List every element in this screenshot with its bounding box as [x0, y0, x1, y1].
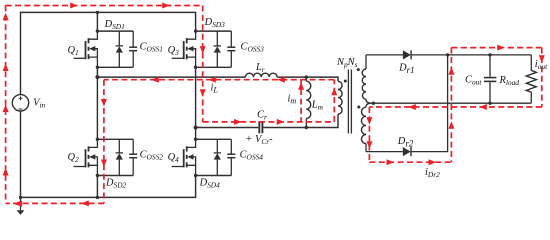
- node Q3 group top junction: [194, 29, 197, 32]
- transformer secondary upper polarity dot: [357, 68, 360, 71]
- wire Q4 group bottom: [196, 175, 232, 177]
- wire Q3 group bottom: [196, 66, 232, 68]
- wire red path along Cr line: [203, 121, 335, 123]
- svg-text:Vin: Vin: [33, 97, 45, 109]
- wire red path down right leg: [202, 6, 204, 122]
- svg-text:COSS2: COSS2: [140, 150, 164, 162]
- transistor Q4: [172, 139, 196, 175]
- wire bottom rail: [21, 176, 196, 198]
- arrows red right leg down: [200, 46, 206, 54]
- ground: [17, 197, 25, 215]
- svg-text:DSD3: DSD3: [204, 17, 226, 29]
- wire Cr line right to primary bottom: [263, 114, 338, 127]
- arrows red Dr2 loop left down: [366, 117, 372, 125]
- wire red path down left leg: [103, 80, 105, 204]
- wire red output loop top: [451, 47, 541, 49]
- wire top rail: [21, 12, 196, 94]
- transformer primary polarity dot: [344, 80, 347, 83]
- wire left leg middle: [96, 67, 98, 139]
- svg-text:Q4: Q4: [168, 152, 180, 164]
- wire Q3 group top: [196, 30, 232, 32]
- svg-text:COSS1: COSS1: [140, 42, 163, 54]
- node Cout top junction: [488, 53, 491, 56]
- svg-text:Lm: Lm: [311, 100, 324, 112]
- wire left leg bottom: [96, 176, 98, 198]
- node center tap junction: [372, 102, 375, 105]
- svg-text:COSS3: COSS3: [241, 42, 265, 54]
- wire secondary top to Dr1: [366, 54, 403, 56]
- node rectifier output junction: [446, 53, 449, 56]
- wire Q2 group bottom: [97, 175, 133, 177]
- node Lm bottom junction: [305, 126, 308, 129]
- capacitor COSS2: [129, 139, 137, 175]
- svg-text:DSD2: DSD2: [105, 177, 127, 189]
- wire Q2 group top: [97, 138, 133, 140]
- node A bridge left midpoint: [95, 75, 99, 79]
- transistor Q1: [74, 31, 98, 67]
- inductor Lr: [246, 73, 278, 77]
- wire Q4 group top: [196, 138, 232, 140]
- wire red Dr2 loop bottom: [369, 161, 451, 163]
- wire node B Cr line left: [196, 127, 259, 129]
- wire red output loop right: [541, 48, 543, 107]
- arrows red Cr line right: [234, 119, 242, 125]
- arrows red left leg down: [101, 99, 107, 107]
- svg-text:Q3: Q3: [168, 45, 180, 57]
- diode Dr1: [403, 50, 411, 59]
- arrows red mid rail left: [151, 77, 159, 83]
- node Q3 group bottom junction: [194, 66, 197, 69]
- node Q1 group bottom junction: [96, 66, 99, 69]
- svg-text:COSS4: COSS4: [240, 150, 264, 162]
- wire Dr2 riser: [411, 55, 448, 152]
- svg-text:Cr: Cr: [257, 110, 267, 122]
- arrows red Dr1 riser up: [448, 67, 454, 75]
- arrow red output right down: [539, 55, 545, 63]
- node Q4 group bottom junction: [194, 174, 197, 177]
- svg-text:Q1: Q1: [68, 45, 79, 57]
- capacitor COSS3: [227, 31, 235, 67]
- wire red bottom return: [6, 202, 104, 204]
- wire Vin bottom lead: [20, 111, 22, 197]
- svg-text:iL: iL: [211, 82, 219, 94]
- node Lm top junction: [305, 75, 308, 78]
- wire red Dr2 loop left: [368, 107, 370, 162]
- wire red path along mid rail: [104, 79, 334, 81]
- transistor Q2: [74, 139, 98, 175]
- capacitor COSS1: [129, 31, 137, 67]
- svg-text:DSD1: DSD1: [104, 19, 125, 31]
- node Cout bottom junction: [488, 102, 491, 105]
- arrows red input loop top right: [70, 3, 78, 9]
- wire Q1 group top: [97, 30, 133, 32]
- diode Dr2: [403, 147, 411, 156]
- capacitor Cr: [259, 121, 262, 133]
- diode DSD3: [214, 31, 221, 67]
- wire red im loop left: [300, 80, 302, 122]
- transformer center tap: [366, 99, 371, 107]
- node Q4 group top junction: [194, 138, 197, 141]
- svg-text:im: im: [288, 93, 297, 105]
- transformer secondary winding Ns lower: [361, 107, 366, 151]
- svg-text:Cout: Cout: [465, 74, 482, 86]
- arrows red bottom return left: [13, 201, 23, 207]
- transformer primary winding Np: [338, 81, 342, 114]
- wire Q1 group bottom: [97, 66, 133, 68]
- arrows red Dr2 loop bottom right: [387, 159, 395, 165]
- svg-text:Dr1: Dr1: [398, 63, 415, 75]
- wire red Dr1 loop left riser: [450, 48, 452, 163]
- svg-text:Dr2: Dr2: [397, 136, 414, 148]
- wire left leg top: [96, 12, 98, 31]
- node B bridge right midpoint / Cr branch: [194, 126, 198, 130]
- transistor Q3: [172, 31, 196, 67]
- wire Dr1 to output top rail: [411, 54, 531, 56]
- node Q2 group top junction: [96, 138, 99, 141]
- wire output bottom rail / center tap: [371, 102, 531, 104]
- capacitor COSS4: [227, 139, 235, 175]
- diode DSD2: [116, 139, 123, 175]
- wire secondary bottom to Dr2: [366, 151, 403, 153]
- svg-text:iDr2: iDr2: [425, 167, 440, 179]
- inductor Lm: [306, 77, 310, 127]
- arrows red output bottom left: [408, 104, 416, 110]
- arrow red im loop up: [298, 82, 304, 90]
- node Q2 group bottom junction: [96, 174, 99, 177]
- capacitor Cout: [484, 55, 496, 103]
- transformer core: [348, 70, 351, 134]
- wire right leg middle: [195, 67, 197, 139]
- wire red input loop top: [6, 5, 203, 7]
- node top rail / left leg junction: [96, 11, 99, 14]
- diode DSD1: [116, 31, 123, 67]
- arrows red input loop left up: [3, 13, 9, 21]
- arrow red output top right: [497, 45, 505, 51]
- wire node A rail to Lr: [97, 76, 245, 78]
- svg-text:DSD4: DSD4: [199, 177, 221, 189]
- wire Lr to transformer primary: [277, 77, 338, 81]
- transformer secondary lower polarity dot: [357, 106, 360, 109]
- wire red output loop bottom: [369, 106, 541, 108]
- transformer secondary winding Ns upper: [362, 55, 366, 99]
- svg-text:Rload: Rload: [499, 75, 520, 87]
- svg-text:Lr: Lr: [255, 62, 265, 74]
- wire red input loop left: [5, 6, 7, 204]
- svg-text:+ VCr-: + VCr-: [245, 134, 273, 146]
- node left leg / bottom rail junction: [96, 196, 99, 199]
- node Vin negative / ground junction: [19, 196, 22, 199]
- resistor Rload: [526, 55, 536, 103]
- arrow red up at transformer: [331, 88, 337, 96]
- source Vin: [12, 95, 28, 111]
- diode DSD4: [214, 139, 221, 175]
- wire red path up at transformer: [333, 80, 335, 122]
- svg-text:Q2: Q2: [68, 152, 80, 164]
- svg-text:NpNs: NpNs: [336, 57, 358, 69]
- node Q1 group top junction: [96, 29, 99, 32]
